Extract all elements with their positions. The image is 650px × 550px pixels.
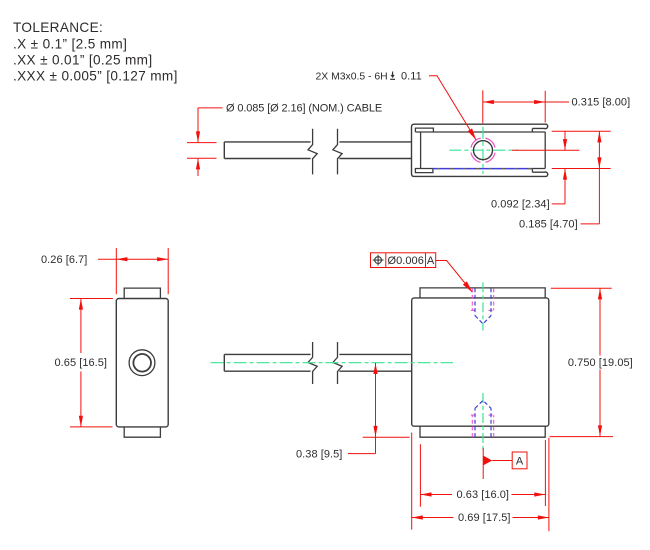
front view bottom hole centerline (green) xyxy=(482,393,484,450)
side view body outline xyxy=(116,299,168,427)
datum A leader xyxy=(492,460,512,462)
front view top hole drill lines (blue) xyxy=(475,288,491,324)
top view outer body outline xyxy=(412,124,548,176)
top view bottom-left tab xyxy=(415,169,433,173)
front view bottom hole thread lines (magenta) xyxy=(471,415,495,437)
top view cable left end xyxy=(223,142,225,159)
svg-text:0.63 [16.0]: 0.63 [16.0] xyxy=(457,489,510,501)
top view cable lower line xyxy=(224,158,411,160)
front view cable left end xyxy=(223,354,225,371)
svg-text:Ø 0.085 [Ø 2.16] (NOM.) CABLE: Ø 0.085 [Ø 2.16] (NOM.) CABLE xyxy=(226,102,382,114)
dimension 0.38 xyxy=(348,363,410,454)
dimension 0.750 xyxy=(550,288,613,436)
dimension 0.65 xyxy=(70,299,113,427)
feature control frame text xyxy=(388,255,435,267)
svg-text:0.69 [17.5]: 0.69 [17.5] xyxy=(458,512,511,524)
top view thread circle (magenta) xyxy=(469,136,498,165)
top view cable break line right xyxy=(333,129,342,175)
svg-text:2X M3x0.5 - 6H: 2X M3x0.5 - 6H xyxy=(316,72,388,83)
dimension 0.185 line xyxy=(581,131,600,224)
svg-text:.XXX ± 0.005” [0.127 mm]: .XXX ± 0.005” [0.127 mm] xyxy=(13,69,178,84)
svg-text:0.315 [8.00]: 0.315 [8.00] xyxy=(572,97,631,109)
svg-text:0.092 [2.34]: 0.092 [2.34] xyxy=(491,199,550,211)
dimension 0.69 xyxy=(412,433,549,532)
top view cable upper line xyxy=(224,141,411,143)
side view bottom cap xyxy=(124,427,160,437)
svg-text:A: A xyxy=(516,456,524,468)
top view top-left tab xyxy=(415,128,433,132)
front view top hole centerline (green) xyxy=(482,282,484,330)
front view top hole thread lines (magenta) xyxy=(471,288,495,310)
side view cable hole outer circle xyxy=(129,350,155,376)
dimension 2X M3 thread callout leader xyxy=(429,76,476,140)
datum A extension line xyxy=(482,448,484,479)
svg-text:Ø0.006: Ø0.006 xyxy=(388,255,424,267)
dimension 0.26 xyxy=(98,248,168,294)
2X M3 thread callout label xyxy=(316,71,422,83)
dimension 0.315 extension lines xyxy=(483,90,569,123)
dimension 0.63 xyxy=(420,440,545,507)
front view cable upper line xyxy=(224,353,411,355)
front view cable lower line xyxy=(224,370,411,372)
svg-text:A: A xyxy=(427,255,435,267)
front view cable centerline (green) xyxy=(211,362,453,364)
svg-text:0.11: 0.11 xyxy=(401,71,422,83)
top view cap top edge xyxy=(415,131,545,133)
depth symbol xyxy=(390,72,395,80)
top view hole centerline vertical (green) xyxy=(482,127,484,174)
datum A box xyxy=(512,452,527,469)
top view cable break line left xyxy=(308,129,317,175)
position symbol xyxy=(373,255,384,266)
svg-text:0.185 [4.70]: 0.185 [4.70] xyxy=(519,218,578,230)
front view body outline xyxy=(412,298,549,426)
front view cable break line left xyxy=(308,342,317,384)
side view cable hole inner circle xyxy=(133,354,151,372)
top view hole centerline horizontal (green) xyxy=(449,149,518,151)
top view cap bottom edge right segment xyxy=(532,168,545,170)
front view bottom hole drill lines (blue) xyxy=(475,400,491,437)
svg-text:0.65 [16.5]: 0.65 [16.5] xyxy=(55,357,108,369)
svg-text:.X ± 0.1” [2.5 mm]: .X ± 0.1” [2.5 mm] xyxy=(13,37,127,52)
datum A triangle xyxy=(483,456,492,466)
svg-text:0.750 [19.05]: 0.750 [19.05] xyxy=(568,357,633,369)
dimension cable diameter leader xyxy=(187,108,223,176)
top view cap left edge xyxy=(420,132,422,169)
svg-text:.XX ± 0.01” [0.25 mm]: .XX ± 0.01” [0.25 mm] xyxy=(13,53,152,68)
svg-text:0.26 [6.7]: 0.26 [6.7] xyxy=(41,254,87,266)
svg-text:TOLERANCE:: TOLERANCE: xyxy=(13,20,103,35)
top view body right edge xyxy=(544,132,546,169)
side view top cap xyxy=(124,288,160,298)
top view body step right bottom xyxy=(531,169,533,173)
svg-text:0.38 [9.5]: 0.38 [9.5] xyxy=(296,448,342,460)
feature control frame leader xyxy=(436,261,473,293)
front view top cap xyxy=(420,288,545,298)
front view cable break line right xyxy=(333,342,342,384)
top view M3 hole circle xyxy=(474,141,493,160)
front view bottom cap xyxy=(420,426,545,437)
top view body step right top xyxy=(531,128,533,132)
right side extension lines top view xyxy=(552,131,611,168)
top view hidden cap bottom edge (blue) xyxy=(433,168,533,170)
dimension 0.092 arrows xyxy=(512,132,579,204)
tolerance note text block xyxy=(13,20,178,84)
feature control frame box xyxy=(371,253,436,268)
